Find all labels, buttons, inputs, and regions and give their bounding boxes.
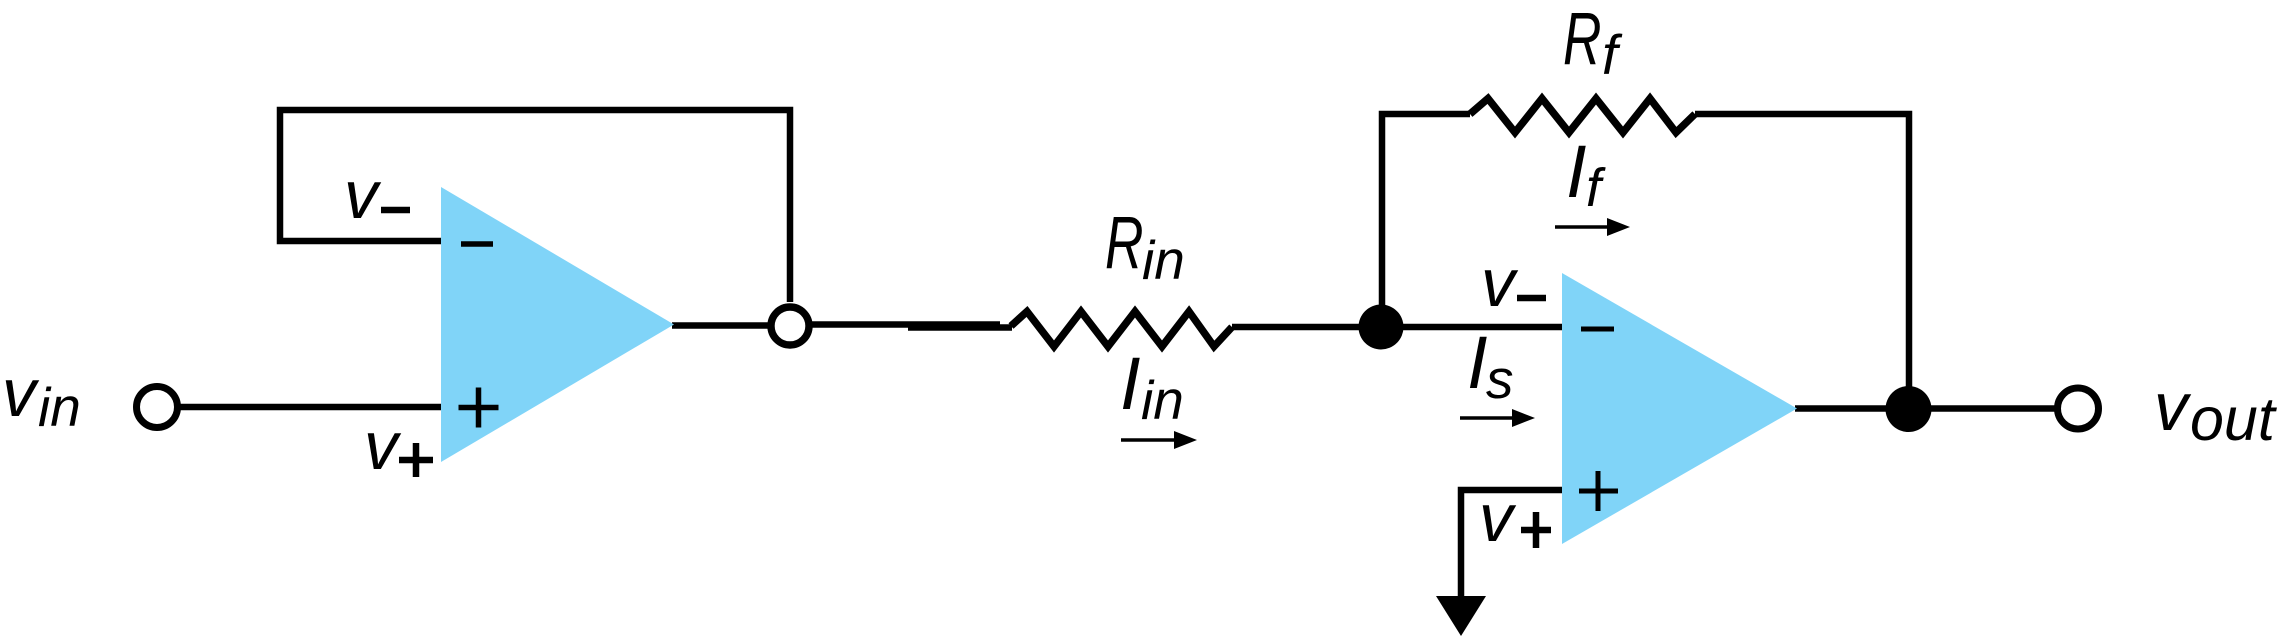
wire: U1 feedback loop (output up over top to - input) [280,110,790,302]
svg-text:v: v [2154,369,2192,445]
current arrow Iin [1121,431,1197,449]
svg-text:I: I [1467,321,1488,404]
wire: Rin to node A and U2 - input [1232,324,1562,331]
svg-text:s: s [1486,348,1514,410]
resistor Rf [1470,99,1695,133]
wire: Rf to output node B [1695,114,1909,409]
svg-text:in: in [1142,229,1185,291]
U1 + input sign [459,388,499,428]
current arrow Is [1460,409,1535,427]
op-amp U1 [441,187,674,462]
label Rin [1105,201,1185,291]
wire: overlapping short segment [908,324,1012,331]
svg-text:out: out [2190,385,2278,453]
ground arrow head [1436,596,1486,636]
label v_in [2,355,81,438]
svg-text:in: in [38,376,81,438]
U1 - input sign [461,241,493,247]
wire: U2 output to v_out terminal [1795,405,2058,412]
label Is [1467,321,1514,410]
U2 + input sign [1579,471,1618,511]
wire: node A up to feedback resistor Rf [1382,114,1470,327]
wire: U2 + input to ground arrow [1461,490,1562,600]
wire: v_in terminal to op-amp U1 + input [157,404,443,411]
svg-text:in: in [1141,369,1184,431]
label v_out [2154,369,2278,453]
svg-text:v: v [344,157,382,233]
svg-text:v: v [1479,480,1517,556]
label Rf [1563,0,1623,86]
terminal: v_in (open circle) [137,387,178,428]
label Iin [1120,342,1184,431]
svg-text:I: I [1120,342,1141,425]
op-amp U2 [1562,273,1797,544]
svg-text:R: R [1105,201,1143,284]
svg-text:v: v [1481,245,1519,321]
node A junction dot [1359,305,1404,350]
label v- of U1 [344,157,410,233]
U2 - input sign [1581,327,1614,332]
current arrow If [1555,218,1630,236]
node B junction dot [1886,386,1932,432]
svg-text:I: I [1566,130,1587,213]
label v- of U2 [1481,245,1546,321]
svg-text:v: v [364,408,402,484]
svg-text:v: v [2,355,40,431]
node: U1 output (open circle) [771,307,809,345]
resistor Rin [1011,312,1232,347]
terminal: v_out (open circle) [2058,388,2099,429]
label If [1566,130,1606,218]
wire: open node to resistor Rin [808,321,1000,328]
label v+ of U2 [1479,480,1551,556]
svg-text:R: R [1563,0,1601,80]
label v+ of U1 [364,408,433,484]
wire: U1 output to open node [672,322,772,329]
